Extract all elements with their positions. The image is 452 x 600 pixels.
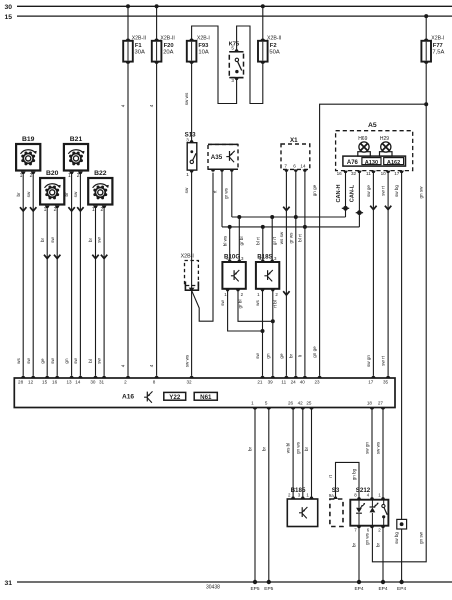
wire F77 to A16 pin 23	[320, 104, 427, 376]
svg-text:7: 7	[284, 163, 287, 168]
svg-text:X1: X1	[290, 137, 298, 144]
wire F2 feed	[262, 6, 264, 41]
svg-text:gn ws: gn ws	[365, 532, 370, 545]
svg-text:30: 30	[90, 380, 96, 385]
svg-text:br: br	[288, 353, 293, 358]
svg-text:br: br	[376, 542, 381, 547]
svg-text:28: 28	[18, 380, 24, 385]
svg-text:10: 10	[381, 171, 387, 176]
svg-text:39: 39	[268, 380, 274, 385]
fuse F77 7,5A	[423, 39, 429, 41]
wire F20 to A16 pin 8	[156, 62, 158, 376]
svg-text:ge: ge	[279, 353, 284, 359]
wire B22-2 to A16 pin 31	[103, 206, 105, 376]
wire B10G pin3 to CAN-H bus	[238, 218, 240, 262]
svg-text:sw bg: sw bg	[394, 185, 399, 197]
wire A16 pin25 to B185	[311, 410, 313, 498]
wire A16 pin5 to ground	[268, 410, 270, 583]
node junction F77 distribution	[424, 102, 428, 106]
svg-text:EP5: EP5	[250, 586, 259, 592]
svg-text:H69: H69	[358, 136, 367, 142]
svg-text:EP4: EP4	[397, 586, 406, 592]
node ground EP4 b	[381, 580, 385, 584]
svg-text:li: li	[298, 355, 303, 357]
wire CAN-H from A5 pin16	[345, 172, 347, 217]
svg-text:sw: sw	[50, 358, 55, 364]
svg-text:bl rt: bl rt	[298, 233, 303, 241]
fuse F20 20A	[154, 39, 160, 41]
arrow B19-1	[20, 207, 26, 211]
svg-text:X2B-I: X2B-I	[197, 35, 210, 41]
svg-text:4: 4	[121, 364, 126, 367]
svg-text:sw bg: sw bg	[394, 532, 399, 544]
svg-text:sw: sw	[26, 358, 31, 364]
wire F93 to S13	[191, 62, 193, 141]
control unit A16 box	[14, 378, 395, 408]
svg-text:35: 35	[383, 380, 389, 385]
svg-text:br: br	[16, 192, 21, 197]
svg-text:42: 42	[298, 400, 304, 405]
wire B19-2 to A16 pin 12	[32, 172, 34, 376]
svg-text:sw: sw	[97, 237, 102, 243]
wire B10G pin1 to B18S pin1 wire	[228, 290, 263, 331]
svg-text:31: 31	[5, 580, 13, 587]
svg-text:sw: sw	[255, 353, 260, 359]
svg-text:F77: F77	[433, 43, 443, 49]
svg-text:ws bl: ws bl	[286, 443, 291, 453]
fuse F2 50A	[260, 39, 266, 41]
svg-text:A5: A5	[368, 122, 377, 129]
wire A16 pin26 to B185	[292, 410, 294, 498]
svg-text:sw rt: sw rt	[381, 355, 386, 365]
wire S212 pin7 to ground	[358, 527, 360, 582]
A16 bottom pins	[253, 408, 257, 410]
svg-text:sw: sw	[73, 358, 78, 364]
module A130	[362, 158, 381, 165]
unit A5 box	[336, 131, 413, 171]
splice CAN-L	[356, 212, 363, 214]
wire K75 pin3 to F93	[192, 26, 237, 104]
fuse F1 30A	[125, 39, 131, 41]
svg-text:17: 17	[394, 171, 400, 176]
svg-text:24: 24	[291, 380, 297, 385]
svg-text:ws: ws	[255, 299, 260, 305]
sensor A35	[208, 144, 238, 169]
wire B19-1 to A16 pin 28	[22, 172, 24, 376]
svg-text:sw: sw	[73, 191, 78, 197]
svg-text:B22: B22	[94, 170, 107, 177]
arrow A5-10	[385, 206, 391, 210]
svg-text:32: 32	[351, 171, 357, 176]
svg-text:H29: H29	[380, 136, 389, 142]
svg-text:15: 15	[5, 14, 13, 21]
wire A16 pin42 to B185	[302, 410, 304, 498]
svg-text:sw gn: sw gn	[365, 442, 370, 454]
svg-text:25: 25	[306, 400, 312, 405]
node ground EP5 b	[267, 580, 271, 584]
svg-text:A35: A35	[211, 154, 223, 161]
svg-text:ge: ge	[40, 358, 45, 364]
wire B20-1 to A16 pin 15	[46, 206, 48, 376]
wire A35 to CAN-H bus	[231, 170, 233, 217]
wire X1 pin6 to A16 pin 24	[295, 171, 297, 376]
wire B18S pin2 to CAN-L bus	[262, 228, 264, 262]
wire F20 feed	[156, 6, 158, 41]
svg-text:F1: F1	[135, 43, 143, 49]
wire X1 pin7 to A16 pin 11	[285, 171, 287, 376]
module Y22	[164, 392, 186, 400]
svg-text:16: 16	[337, 171, 343, 176]
arrow B19-2	[30, 207, 36, 211]
svg-text:18: 18	[367, 400, 373, 405]
arrow X1-7 lower	[283, 291, 289, 295]
svg-text:gr ws: gr ws	[288, 232, 293, 244]
svg-text:17: 17	[368, 380, 374, 385]
svg-text:CAN-L: CAN-L	[350, 184, 356, 202]
wire A16 pin27 to S212 pin 1	[382, 410, 384, 498]
svg-text:3: 3	[231, 78, 234, 83]
A5 pins	[343, 171, 348, 173]
wire S212 pin2 to ground	[382, 527, 384, 582]
svg-text:A16: A16	[122, 393, 134, 400]
arrow B20-1	[44, 255, 50, 259]
svg-text:14: 14	[300, 163, 306, 168]
svg-text:31: 31	[99, 380, 105, 385]
wire B18S pin3 to CAN-H bus	[271, 218, 273, 262]
svg-text:sw ws: sw ws	[184, 92, 189, 105]
svg-text:F2: F2	[270, 43, 277, 49]
wire B18S pin1 to A16 pin 21	[262, 290, 264, 376]
svg-text:K75: K75	[229, 42, 240, 48]
svg-text:X2B-II: X2B-II	[267, 35, 281, 41]
svg-text:gn ge: gn ge	[312, 184, 317, 196]
wire F1 feed	[127, 6, 129, 41]
svg-text:X2B-II: X2B-II	[160, 35, 174, 41]
svg-text:br: br	[261, 446, 266, 451]
node junction rail30/F1	[126, 4, 130, 8]
svg-text:1: 1	[20, 173, 23, 179]
node junction B10G/B18S pin1	[261, 329, 265, 333]
svg-text:sw: sw	[97, 358, 102, 364]
svg-text:30438: 30438	[206, 585, 220, 591]
svg-text:EP4: EP4	[354, 586, 363, 592]
svg-text:EP4: EP4	[378, 586, 387, 592]
wire S13 to A16 pin 32	[191, 171, 193, 375]
arrow B20-2	[54, 255, 60, 259]
svg-text:gn ge: gn ge	[312, 346, 317, 358]
svg-text:11: 11	[366, 171, 371, 176]
wire A16 pin18 to S212 pin 4	[371, 410, 373, 498]
arrow B22-2	[101, 255, 107, 259]
svg-text:sw: sw	[26, 191, 31, 197]
svg-text:sw ws: sw ws	[185, 354, 190, 367]
svg-text:sw ge: sw ge	[366, 185, 371, 197]
svg-text:A76: A76	[347, 160, 359, 166]
wire rail 30	[17, 5, 452, 7]
wire B21-2 to A16 pin 14	[79, 172, 81, 376]
svg-text:gr rt: gr rt	[272, 236, 277, 245]
wire B18S pin2 to A16 pin 39	[272, 290, 274, 376]
wire B10G pin4 to CAN-L bus	[229, 228, 231, 262]
node ground EP5 a	[253, 580, 257, 584]
svg-text:6: 6	[293, 163, 296, 168]
node junction rail15/F77	[424, 14, 428, 18]
svg-text:12: 12	[28, 380, 34, 385]
svg-text:sw: sw	[220, 300, 225, 306]
svg-text:2: 2	[101, 207, 104, 213]
svg-text:gn sw: gn sw	[419, 186, 424, 199]
svg-text:8: 8	[153, 380, 156, 385]
arrow B21-2	[77, 207, 83, 211]
svg-text:bl: bl	[88, 359, 93, 363]
splice CAN-H	[342, 207, 349, 209]
svg-text:2: 2	[30, 173, 33, 179]
svg-text:4: 4	[149, 104, 154, 107]
svg-text:sw gn: sw gn	[366, 355, 371, 367]
svg-text:sw: sw	[50, 237, 55, 243]
svg-text:F20: F20	[164, 43, 174, 49]
svg-text:2: 2	[77, 173, 80, 179]
svg-text:X2B-I: X2B-I	[431, 35, 444, 41]
svg-text:1: 1	[186, 172, 189, 177]
svg-text:A130: A130	[365, 160, 378, 166]
svg-text:4: 4	[149, 364, 154, 367]
svg-text:B21: B21	[70, 136, 83, 143]
node ground EP4 right	[399, 580, 403, 584]
wire B22-1 to A16 pin 30	[95, 206, 97, 376]
svg-text:sw ws: sw ws	[376, 441, 381, 454]
module N61	[194, 392, 217, 400]
svg-text:11: 11	[281, 380, 286, 385]
wire X2B-I branch to A35 pin	[192, 173, 213, 322]
svg-text:ws sw: ws sw	[279, 231, 284, 244]
svg-text:30: 30	[5, 4, 13, 11]
svg-text:gr bl: gr bl	[238, 300, 243, 309]
svg-text:26: 26	[288, 400, 294, 405]
svg-text:5: 5	[265, 400, 268, 405]
svg-text:9a: 9a	[329, 493, 334, 498]
wire X1 pin14 to A16 pin 40	[304, 171, 306, 376]
svg-text:B20: B20	[46, 170, 59, 177]
wire CAN-L bus	[222, 226, 359, 228]
svg-text:CAN-H: CAN-H	[336, 184, 342, 202]
svg-text:27: 27	[378, 400, 384, 405]
svg-text:N61: N61	[200, 394, 212, 401]
svg-text:gn bg: gn bg	[352, 468, 357, 480]
svg-text:14: 14	[75, 380, 81, 385]
svg-text:2: 2	[124, 380, 127, 385]
svg-text:br: br	[40, 237, 45, 242]
svg-text:B19: B19	[22, 136, 35, 143]
svg-text:4: 4	[121, 104, 126, 107]
wire F77 to S212 pin 6	[372, 104, 426, 562]
arrow A5-11	[370, 206, 376, 210]
arrow B22-1	[92, 255, 98, 259]
svg-text:sw: sw	[184, 187, 189, 193]
node ground EP4 a	[357, 580, 361, 584]
svg-text:A162: A162	[387, 160, 400, 166]
svg-text:15: 15	[42, 380, 48, 385]
svg-text:20A: 20A	[163, 50, 173, 56]
wire B20-2 to A16 pin 16	[56, 206, 58, 376]
svg-text:gn: gn	[64, 358, 69, 364]
wire A35 to CAN-L bus	[221, 170, 223, 227]
svg-text:X2B-I: X2B-I	[181, 254, 194, 260]
svg-text:7,5A: 7,5A	[432, 50, 444, 56]
svg-text:5: 5	[231, 46, 234, 51]
arrow X1-7 upper	[283, 207, 289, 211]
svg-text:50A: 50A	[269, 50, 279, 56]
svg-text:Y22: Y22	[169, 394, 181, 401]
arrow B21-1	[68, 207, 74, 211]
svg-text:10A: 10A	[198, 50, 208, 56]
wire B10G pin2 to B18S pin2 wire	[238, 290, 273, 321]
svg-text:gr bl: gr bl	[239, 237, 244, 246]
svg-text:rt bl: rt bl	[272, 300, 277, 308]
wire CAN-H bus	[232, 216, 346, 218]
svg-text:gn ws: gn ws	[295, 441, 300, 454]
wire rail 31	[17, 581, 452, 583]
svg-text:40: 40	[300, 380, 306, 385]
node junction CAN-H / B18S	[270, 215, 274, 219]
wire F77 feed	[425, 16, 427, 41]
svg-text:br: br	[352, 542, 357, 547]
wire S3 to S212 pin 8	[336, 462, 360, 497]
svg-text:gr ws: gr ws	[223, 187, 228, 199]
node junction rail30/F20	[155, 4, 159, 8]
svg-text:ws: ws	[16, 357, 21, 363]
module A76 box	[343, 156, 406, 166]
wire A5 pin11 to A16 pin 17	[372, 172, 374, 376]
wire F2 to K75 pin 5	[237, 26, 263, 104]
svg-text:32: 32	[186, 380, 192, 385]
svg-text:30A: 30A	[135, 50, 145, 56]
svg-text:bl ws: bl ws	[222, 235, 227, 246]
node junction CAN-L / B18S	[261, 225, 265, 229]
svg-text:sw rt: sw rt	[381, 185, 386, 195]
node junction CAN-L / X1-14	[303, 225, 307, 229]
svg-text:br: br	[88, 237, 93, 242]
A16 valve icon	[144, 391, 152, 402]
wire B21-1 to A16 pin 13	[71, 172, 73, 376]
svg-text:gn sw: gn sw	[419, 531, 424, 544]
svg-text:1: 1	[251, 400, 254, 405]
node junction CAN-L / B10G	[228, 225, 232, 229]
svg-text:1: 1	[92, 207, 95, 213]
svg-text:br: br	[304, 446, 309, 451]
wire A16 pin1 to ground	[254, 410, 256, 583]
wire F1 to A16 pin 2	[127, 62, 129, 376]
fuse F93 10A	[189, 39, 195, 41]
wire rail 15	[17, 15, 452, 17]
A16 top pins	[21, 376, 25, 378]
node junction CAN-H / X1-6	[294, 215, 298, 219]
node junction CAN-H / B10G	[237, 215, 241, 219]
node junction B10G/B18S pin2	[271, 319, 275, 323]
svg-text:3: 3	[186, 137, 189, 142]
svg-text:gn: gn	[265, 353, 270, 359]
wire CAN-L from A5 pin32	[358, 172, 360, 227]
node junction rail30/F2	[261, 4, 265, 8]
svg-text:br: br	[248, 446, 253, 451]
svg-text:1: 1	[44, 207, 47, 213]
svg-text:21: 21	[257, 380, 263, 385]
svg-text:bl rt: bl rt	[255, 236, 260, 244]
svg-text:1: 1	[68, 173, 71, 179]
svg-text:16: 16	[52, 380, 58, 385]
splice box	[397, 519, 407, 529]
svg-text:2: 2	[54, 207, 57, 213]
wire A5 pin10 to A16 pin 35	[387, 172, 389, 376]
svg-text:F93: F93	[198, 43, 209, 49]
svg-text:X2B-II: X2B-II	[132, 35, 146, 41]
svg-text:EP5: EP5	[264, 586, 273, 592]
module A162	[384, 158, 404, 165]
wire F77 output	[425, 62, 427, 104]
wire A5 pin17 to ground	[401, 172, 403, 582]
svg-text:23: 23	[314, 380, 320, 385]
svg-text:13: 13	[66, 380, 72, 385]
